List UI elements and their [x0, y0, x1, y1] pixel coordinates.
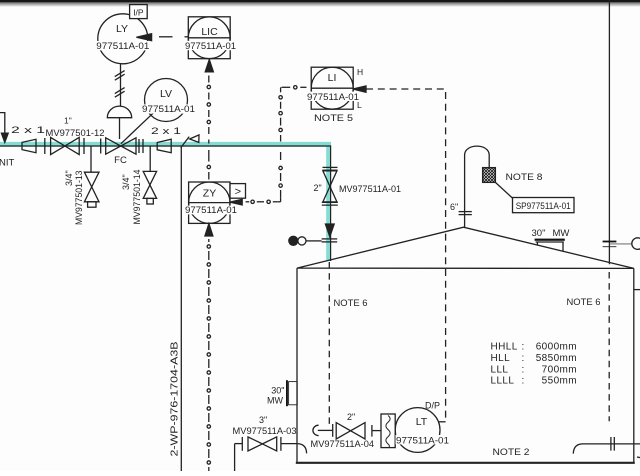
svg-text:MV977501-14: MV977501-14: [132, 170, 142, 225]
svg-text:6000mm: 6000mm: [536, 342, 577, 353]
svg-text:L: L: [357, 100, 362, 110]
svg-text:ZY: ZY: [203, 188, 216, 200]
svg-text:NOTE 6: NOTE 6: [334, 298, 368, 308]
svg-text:3": 3": [259, 415, 267, 425]
svg-text::: :: [522, 342, 525, 353]
svg-text:MV977501-13: MV977501-13: [74, 171, 84, 226]
svg-text:NOTE 5: NOTE 5: [314, 113, 353, 124]
svg-text::: :: [522, 364, 525, 375]
svg-text:SP977511A-01: SP977511A-01: [516, 201, 571, 211]
svg-text:MV977511A-03: MV977511A-03: [233, 426, 297, 436]
svg-text:HHLL: HHLL: [491, 342, 518, 353]
svg-text:NOTE 6: NOTE 6: [567, 297, 601, 307]
svg-text:D/P: D/P: [425, 401, 440, 411]
svg-text:6": 6": [450, 202, 458, 212]
svg-text:LI: LI: [328, 72, 337, 84]
svg-text:LIC: LIC: [201, 26, 218, 38]
svg-text:FC: FC: [114, 155, 127, 166]
svg-text:1": 1": [64, 116, 72, 126]
svg-text:977511A-01: 977511A-01: [396, 435, 449, 445]
svg-text:5850mm: 5850mm: [536, 353, 577, 364]
svg-text:550mm: 550mm: [542, 376, 577, 387]
svg-text:MW: MW: [553, 228, 570, 239]
svg-text:>: >: [235, 186, 241, 198]
svg-text::: :: [522, 376, 525, 387]
svg-text:NIT: NIT: [0, 158, 15, 169]
svg-text:2": 2": [347, 412, 355, 422]
svg-text:H: H: [357, 67, 363, 77]
svg-text:LV: LV: [160, 88, 172, 100]
svg-text:977511A-01: 977511A-01: [142, 104, 195, 114]
svg-text:977511A-01: 977511A-01: [96, 41, 149, 51]
svg-text:30": 30": [271, 386, 284, 396]
svg-text::: :: [522, 353, 525, 364]
svg-text:LLL: LLL: [491, 364, 509, 375]
svg-text:977511A-01: 977511A-01: [307, 92, 359, 102]
svg-text:3/4": 3/4": [121, 174, 131, 190]
svg-text:3/4": 3/4": [64, 170, 74, 186]
svg-text:30": 30": [532, 228, 546, 239]
svg-text:2-WP-976-1704-A3B: 2-WP-976-1704-A3B: [170, 341, 181, 456]
svg-text:HLL: HLL: [491, 353, 511, 364]
svg-text:MW: MW: [267, 396, 283, 406]
svg-text:MV977511A-01: MV977511A-01: [339, 184, 401, 194]
svg-text:977511A-01: 977511A-01: [185, 205, 237, 215]
svg-text:MV977511A-04: MV977511A-04: [311, 439, 375, 449]
svg-text:LT: LT: [416, 416, 428, 428]
svg-text:2": 2": [314, 183, 322, 193]
svg-text:MV977501-12: MV977501-12: [46, 128, 105, 138]
svg-text:700mm: 700mm: [542, 364, 577, 375]
svg-text:LY: LY: [116, 23, 128, 35]
svg-text:2 x 1: 2 x 1: [11, 125, 45, 135]
svg-text:2 x 1: 2 x 1: [151, 126, 181, 136]
svg-text:977511A-01: 977511A-01: [185, 41, 236, 51]
svg-text:LLLL: LLLL: [491, 376, 515, 387]
svg-text:NOTE 8: NOTE 8: [506, 172, 543, 183]
svg-text:I/P: I/P: [133, 7, 144, 17]
svg-text:NOTE 2: NOTE 2: [493, 447, 530, 458]
